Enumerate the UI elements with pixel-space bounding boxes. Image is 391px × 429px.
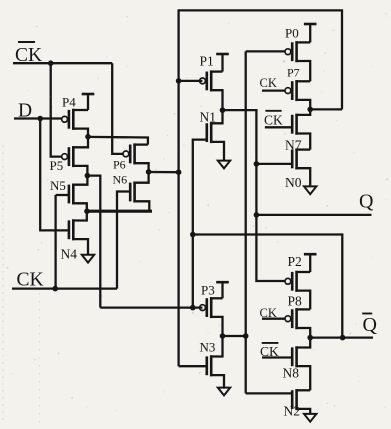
- wire P1 source lead: [210, 90, 223, 110]
- wire CK-bar down to P6 gate: [112, 63, 123, 154]
- svg-text:CK: CK: [17, 270, 44, 291]
- ground N4: [82, 255, 94, 263]
- wire N1 gate rail B: [193, 140, 207, 308]
- node N5-N4 junction: [84, 208, 90, 214]
- svg-text:N3: N3: [200, 339, 216, 354]
- wire P6 source lead: [133, 163, 148, 172]
- wire N6 drain lead: [133, 172, 148, 183]
- wire master out to rail D: [223, 110, 285, 281]
- wire N6 source lead: [133, 201, 149, 211]
- node CK-bar junction: [48, 60, 54, 66]
- node D junction: [37, 116, 43, 122]
- wire N0 drain lead: [295, 148, 310, 150]
- wire N8 gate CK-bar stub: [262, 356, 292, 358]
- node P3 gate junction: [190, 305, 196, 311]
- wire P8 source lead: [295, 328, 310, 338]
- node P7-N7 junction: [307, 107, 313, 113]
- wire CK-bar horizontal: [13, 62, 112, 64]
- transistor N2: [295, 389, 298, 410]
- svg-text:Q: Q: [363, 314, 378, 336]
- wire QB cross-coupling: [193, 235, 342, 338]
- svg-text:P1: P1: [200, 54, 214, 69]
- svg-text:P7: P7: [287, 66, 300, 80]
- wire slave node line: [223, 335, 246, 337]
- power VDD P0: [304, 23, 317, 26]
- ground N0: [304, 186, 316, 194]
- transistor N5: [72, 184, 75, 205]
- wire D horizontal: [14, 117, 62, 119]
- wire P2 drain lead: [295, 271, 310, 273]
- node QB rail B junction: [190, 232, 196, 238]
- svg-text:N8: N8: [283, 366, 300, 381]
- wire N4 source lead: [72, 239, 88, 255]
- svg-text:N4: N4: [61, 247, 78, 262]
- wire P5 source lead: [72, 166, 87, 176]
- wire P7 gate CK stub: [262, 89, 285, 91]
- svg-text:CK: CK: [260, 76, 277, 90]
- transistor N6: [133, 182, 136, 203]
- power VDD P3: [216, 281, 229, 284]
- wire P4 drain lead: [72, 109, 88, 111]
- wire N8 drain lead: [295, 338, 310, 348]
- svg-text:N5: N5: [50, 178, 66, 193]
- ground N2: [304, 414, 316, 422]
- node QB box junction: [340, 335, 346, 341]
- wire P5 drain lead: [72, 137, 88, 148]
- wire N2 drain lead: [295, 389, 310, 391]
- wire P1 drain lead: [210, 70, 223, 72]
- wire N0 gate: [256, 163, 292, 165]
- node X junction: [85, 173, 91, 179]
- node rail A top box: [179, 10, 342, 366]
- transistor P7: [295, 80, 298, 101]
- wire CK up to N6 gate: [117, 192, 130, 289]
- wire N2 gate from rail C: [246, 392, 293, 394]
- node QB junction: [307, 335, 313, 341]
- transistor P0: [295, 41, 298, 62]
- wire P3 gate: [100, 306, 202, 308]
- node P1 gate junction: [176, 78, 182, 84]
- wire N8 source lead: [295, 366, 310, 390]
- wire N4 drain lead: [72, 211, 87, 220]
- wire N7 source lead: [295, 134, 310, 150]
- node P6-N6 junction: [146, 169, 152, 175]
- wire slave pass node feedback: [310, 108, 342, 110]
- wire N7 gate CK-bar stub: [265, 126, 292, 128]
- svg-text:N0: N0: [285, 175, 302, 190]
- svg-text:Q: Q: [359, 191, 374, 213]
- svg-text:P4: P4: [62, 95, 76, 110]
- node slave rail C junction: [243, 333, 249, 339]
- svg-text:N6: N6: [113, 172, 128, 186]
- wire P4 source lead: [72, 129, 88, 137]
- wire P0 source lead: [295, 61, 310, 81]
- transistor N1: [210, 122, 213, 143]
- transistor N0: [295, 148, 298, 169]
- wire QB output: [310, 336, 373, 338]
- wire N1 drain lead: [210, 110, 223, 123]
- wire N5 source lead: [72, 203, 87, 211]
- wire P1 gate: [179, 80, 203, 82]
- wire rail C slave feedback: [245, 51, 247, 393]
- transistor P5: [72, 146, 75, 167]
- wire P0 drain lead: [295, 41, 310, 43]
- transistor P2: [295, 271, 298, 292]
- wire Q output: [256, 214, 371, 216]
- svg-text:P8: P8: [288, 294, 303, 309]
- wire thick node line: [85, 210, 152, 213]
- scan speckle noise: [127, 65, 129, 67]
- wire N5 gate from CK rail: [56, 194, 69, 196]
- wire P0 gate: [246, 50, 285, 52]
- wire P8 gate CK stub: [262, 318, 285, 320]
- svg-text:P3: P3: [201, 283, 215, 298]
- transistor P6: [133, 143, 136, 164]
- wire P7 drain lead: [295, 80, 310, 82]
- wire CK-bar to P5 gate: [51, 63, 62, 156]
- wire N3 gate from rail A: [179, 365, 207, 367]
- wire node X to P3 gate rail: [87, 176, 100, 308]
- scan artifact fold line: [39, 293, 41, 429]
- transistor N7: [295, 114, 298, 135]
- ground N1: [218, 161, 230, 169]
- wire N0 source lead: [295, 168, 310, 186]
- node P4-P5 junction: [85, 134, 91, 140]
- wire P7 source lead: [295, 100, 310, 110]
- node N0 gate junction: [254, 161, 260, 167]
- transistor N8: [295, 346, 298, 367]
- transistor N3: [210, 355, 213, 376]
- svg-text:P0: P0: [285, 26, 299, 41]
- scan artifact left edge: [2, 145, 4, 420]
- wire N7 drain lead: [295, 109, 310, 115]
- wire P3 drain lead: [210, 297, 223, 299]
- svg-text:P6: P6: [113, 158, 126, 172]
- wire P6-N6 node to rail A: [149, 171, 179, 173]
- transistor P8: [295, 308, 298, 329]
- node CK junction: [52, 286, 58, 292]
- wire P2 source lead: [295, 291, 310, 310]
- transistor P3: [210, 297, 213, 318]
- wire node to P6 source: [88, 137, 148, 145]
- wire N2 source lead: [295, 409, 310, 414]
- power VDD P4: [82, 93, 95, 96]
- power VDD P2: [304, 253, 317, 256]
- power VDD P1: [216, 53, 229, 56]
- transistor P1: [210, 70, 213, 91]
- svg-text:CK: CK: [264, 113, 283, 128]
- node P1-N1 junction: [220, 107, 226, 113]
- wire N5 drain lead: [72, 176, 87, 185]
- wire N3 drain lead: [210, 336, 223, 357]
- wire N1 source lead: [210, 142, 224, 161]
- ground N3: [218, 388, 230, 396]
- wire P6 drain lead: [133, 143, 148, 145]
- wire P3 source lead: [210, 317, 223, 336]
- node rail A junction: [176, 169, 182, 175]
- svg-text:N2: N2: [284, 404, 301, 419]
- transistor N4: [72, 219, 75, 240]
- wire P8 drain lead: [295, 308, 310, 310]
- node P3-N3 junction: [220, 333, 226, 339]
- transistor P4: [72, 109, 75, 130]
- wire CK rail of N5: [54, 195, 56, 289]
- wire D rail to N4 gate: [40, 119, 69, 231]
- wire N3 source lead: [210, 375, 224, 388]
- svg-text:P2: P2: [288, 254, 302, 269]
- node Q junction: [254, 212, 260, 218]
- wire CK horizontal: [12, 287, 117, 289]
- svg-text:P5: P5: [50, 158, 64, 173]
